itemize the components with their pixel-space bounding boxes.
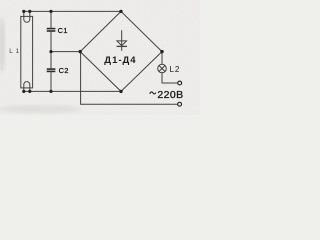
svg-text:Д1-Д4: Д1-Д4 (104, 55, 136, 66)
svg-text:L2: L2 (170, 65, 181, 74)
svg-text:C2: C2 (59, 66, 69, 75)
svg-text:220В: 220В (157, 89, 183, 101)
svg-text:C1: C1 (58, 26, 68, 35)
svg-text:L1: L1 (9, 48, 21, 55)
